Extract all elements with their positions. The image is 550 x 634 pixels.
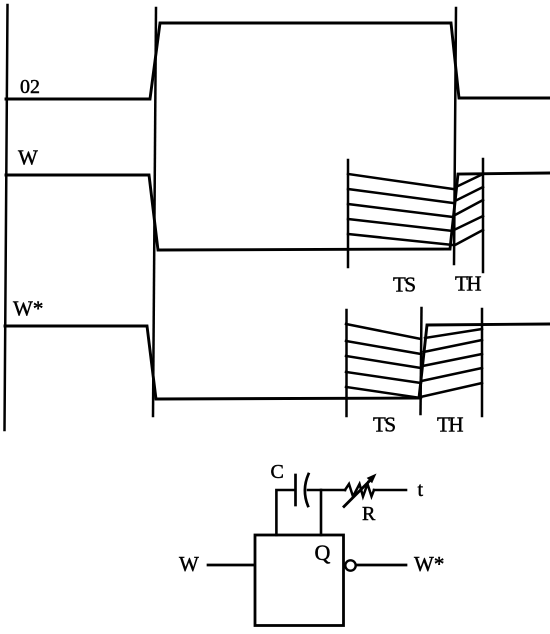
node TH marker (W*) xyxy=(481,309,484,416)
wire W* waveform xyxy=(5,324,550,399)
svg-text:02: 02 xyxy=(20,76,40,98)
svg-text:W: W xyxy=(18,146,38,170)
wire from box top-left to capacitor xyxy=(276,490,295,535)
svg-text:t: t xyxy=(418,479,424,501)
hatch W setup band xyxy=(348,174,453,245)
svg-text:W*: W* xyxy=(414,552,444,576)
inverting bubble on Q output xyxy=(345,560,355,570)
capacitor C right plate xyxy=(305,474,309,506)
svg-text:TS: TS xyxy=(373,413,395,437)
monostable U1 box xyxy=(255,535,344,626)
wire from box top-right junction xyxy=(320,490,323,535)
wire W waveform xyxy=(6,173,550,250)
wire W input xyxy=(208,564,254,567)
hatch W* setup band xyxy=(346,324,421,398)
svg-text:W: W xyxy=(179,552,199,576)
svg-text:TS: TS xyxy=(393,273,415,297)
resistor R zigzag xyxy=(345,484,374,497)
resistor R variable arrow xyxy=(344,479,372,507)
svg-text:TH: TH xyxy=(455,272,481,296)
wire resistor to t xyxy=(374,489,406,492)
svg-text:TH: TH xyxy=(437,413,463,437)
left time axis xyxy=(5,5,8,430)
svg-text:C: C xyxy=(271,461,284,483)
node TS marker (W) xyxy=(347,160,350,267)
capacitor C left plate xyxy=(294,475,297,505)
wire W* output xyxy=(357,564,407,567)
hatch W hold band xyxy=(454,174,483,245)
wire capacitor to resistor xyxy=(308,489,345,492)
node TH marker (W) xyxy=(482,159,485,272)
hatch W* hold band xyxy=(421,329,483,397)
svg-text:Q: Q xyxy=(315,540,331,565)
svg-text:R: R xyxy=(362,503,376,525)
wire 02 waveform xyxy=(6,23,550,99)
vertical marker at first clock edge xyxy=(153,8,156,416)
vertical marker at second clock edge xyxy=(454,8,456,264)
node W* transition marker xyxy=(421,308,422,414)
svg-text:W*: W* xyxy=(13,297,43,321)
node TS marker (W*) xyxy=(345,310,348,416)
